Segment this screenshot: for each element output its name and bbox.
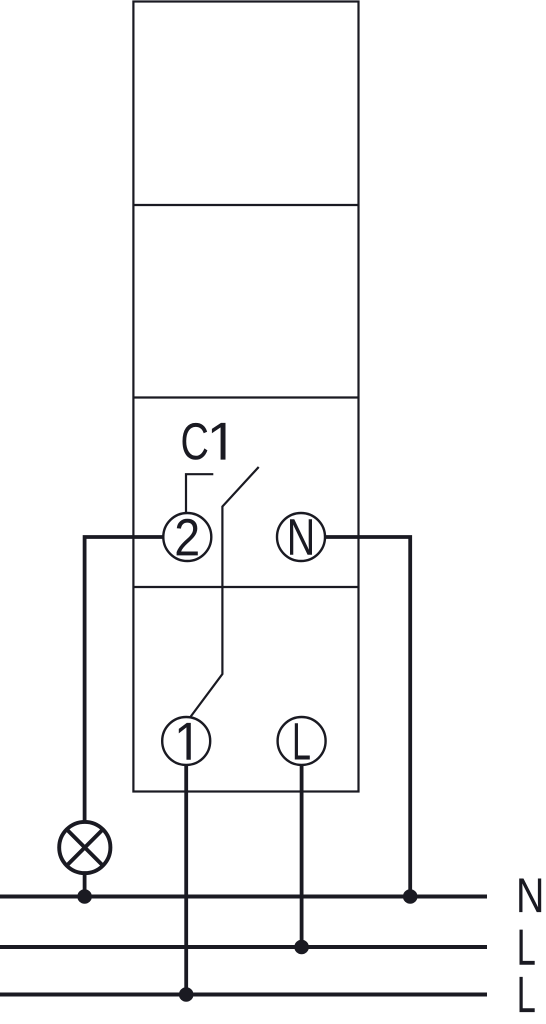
label C1 glyph 1 xyxy=(212,423,226,460)
lamp E1 circle xyxy=(59,822,110,873)
wire terminal 2 to lamp xyxy=(85,537,164,823)
wire terminal L to L bus 1 xyxy=(300,765,304,947)
device divider 3 xyxy=(133,586,358,588)
terminal L label xyxy=(295,723,310,759)
label C1 glyph C xyxy=(183,423,208,460)
terminal N label xyxy=(290,519,312,555)
contact C1 fixed-side hook xyxy=(186,474,213,513)
wire terminal 1 to L bus 2 xyxy=(184,765,188,995)
lamp E1 cross xyxy=(67,829,103,865)
device divider 2 xyxy=(133,396,358,398)
device divider 1 xyxy=(133,204,358,206)
terminal L circle xyxy=(278,717,326,765)
L bus line 1 xyxy=(0,945,487,949)
junction dot 1 wire / L bus 2 xyxy=(179,987,194,1002)
L bus line 2 xyxy=(0,993,487,997)
wire terminal N to N bus xyxy=(325,537,410,897)
net label N xyxy=(519,879,541,913)
terminal 1 label xyxy=(179,723,191,760)
terminal 1 circle xyxy=(162,717,210,765)
junction dot N wire / N bus xyxy=(403,889,418,904)
terminal 2 label xyxy=(177,519,198,556)
N bus line xyxy=(0,895,487,899)
terminal 2 circle xyxy=(163,513,211,561)
net label L middle xyxy=(520,930,535,965)
terminal N circle xyxy=(277,513,325,561)
device outline xyxy=(133,2,358,792)
wire lamp to N bus xyxy=(83,873,87,897)
contact C1 blade xyxy=(190,467,259,718)
junction dot L wire / L bus 1 xyxy=(294,940,309,955)
net label L bottom xyxy=(520,977,535,1012)
junction dot lamp / N bus xyxy=(77,889,92,904)
